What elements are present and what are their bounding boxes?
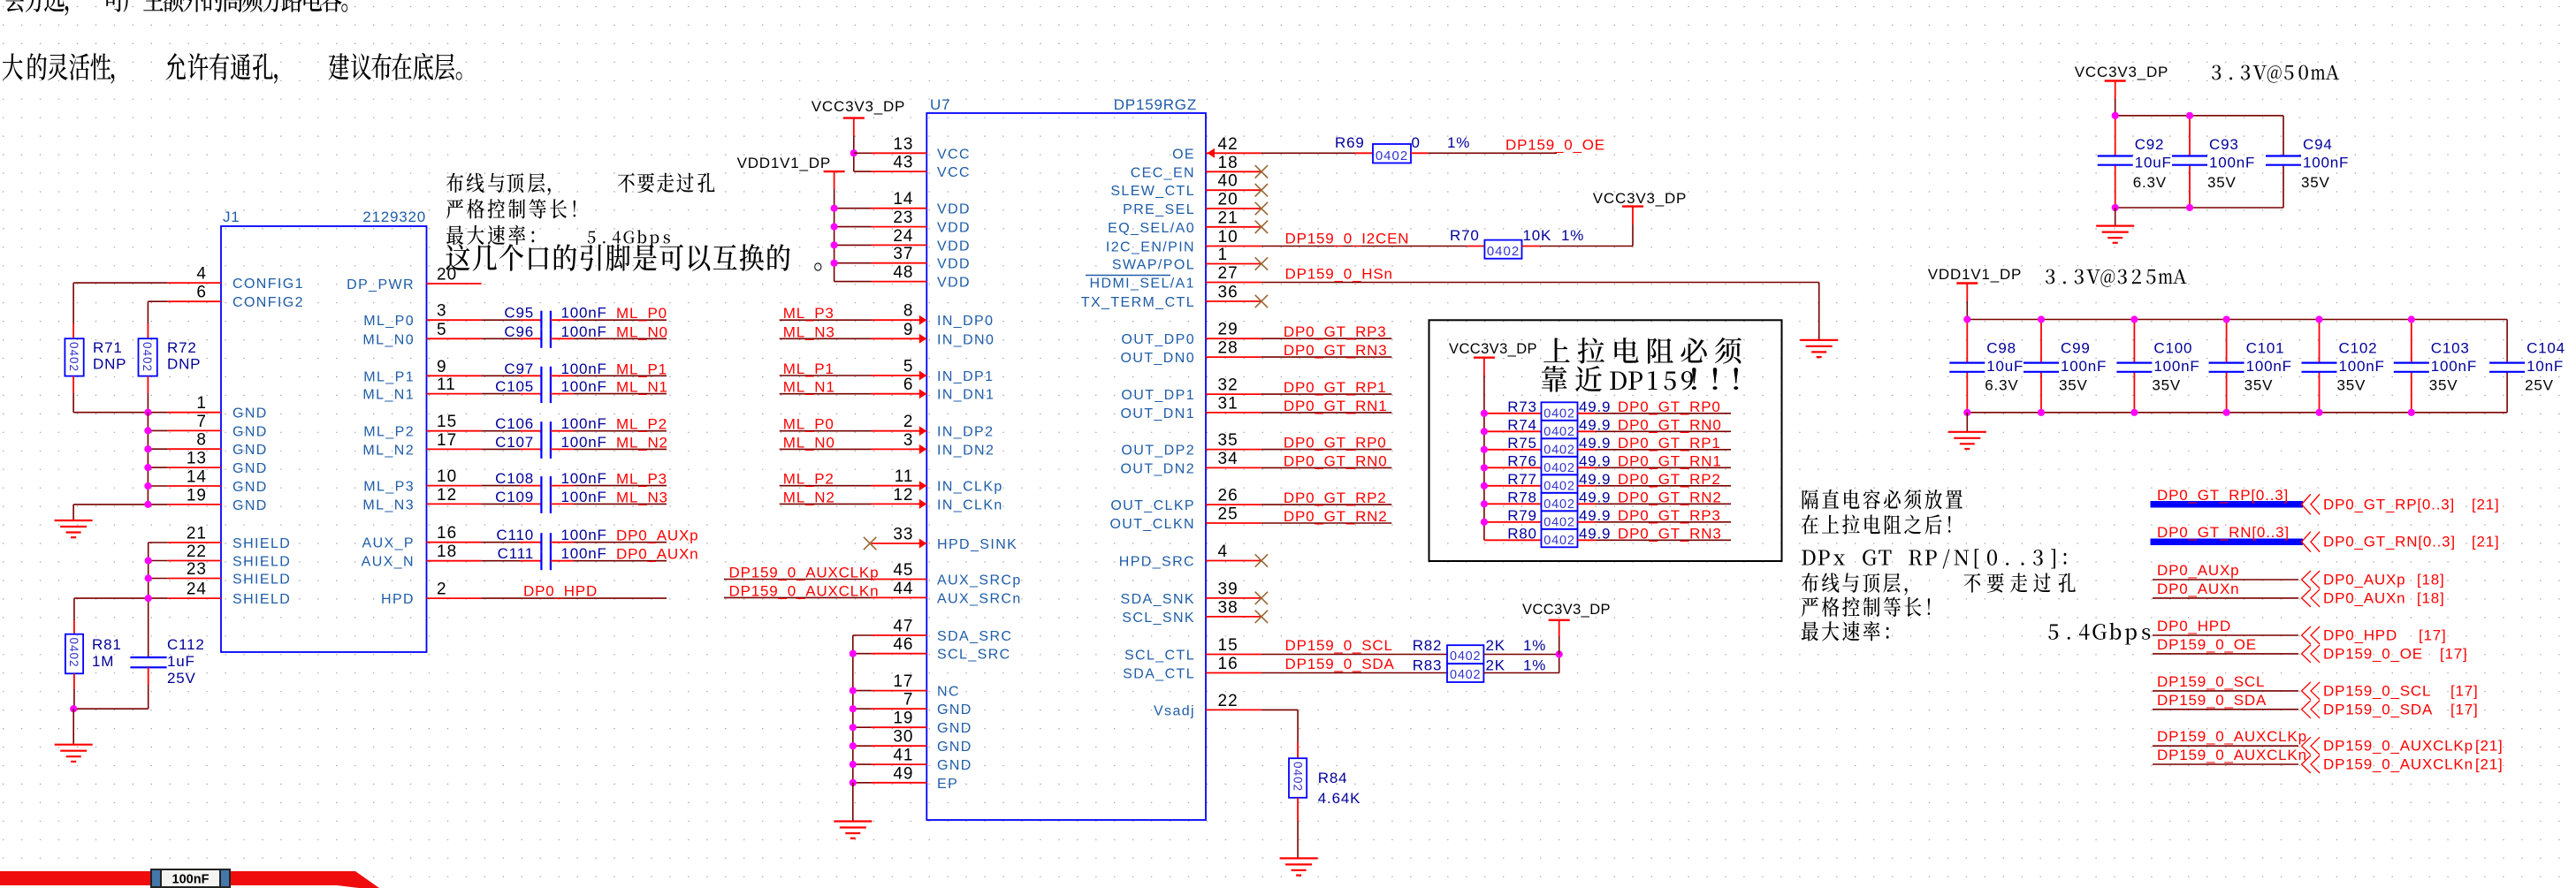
svg-text:C99: C99 (2061, 340, 2091, 357)
svg-text:DP159_0_AUXCLKn: DP159_0_AUXCLKn (2323, 756, 2473, 773)
svg-text:49.9: 49.9 (1579, 525, 1611, 542)
U7 pin 28 OUT_DN0 (1206, 356, 1261, 358)
U7 pin 38 SCL_SNK (1206, 616, 1261, 618)
svg-text:R79: R79 (1507, 507, 1537, 524)
svg-text:100nF: 100nF (561, 305, 607, 322)
svg-text:C105: C105 (495, 378, 534, 395)
svg-text:GND: GND (232, 443, 268, 458)
svg-text:I2C_EN/PIN: I2C_EN/PIN (1106, 240, 1195, 255)
wire DP159_0_AUXCLKp (724, 579, 872, 581)
svg-text:C110: C110 (496, 527, 534, 543)
capacitor C106 100nF net ML_P2 (482, 430, 520, 432)
svg-text:49.9: 49.9 (1579, 452, 1611, 469)
J1 pin 12 ML_N3 (427, 503, 482, 505)
net DP159_0_SCL / resistor R82 2K 1% (1261, 654, 1447, 656)
capacitor C92 10uF 6.3V (2115, 116, 2116, 156)
svg-text:100nF: 100nF (2153, 358, 2199, 375)
svg-text:DP0_GT_RP0: DP0_GT_RP0 (1618, 398, 1721, 415)
svg-text:18: 18 (437, 543, 457, 561)
CJK annotation block right (1802, 490, 1818, 509)
ground C98 bank (1966, 413, 1968, 432)
svg-text:0402: 0402 (141, 342, 154, 372)
J1 pin 22 SHIELD (168, 560, 221, 562)
svg-text:DP0_GT_RP2: DP0_GT_RP2 (1284, 490, 1387, 506)
svg-text:C109: C109 (495, 489, 534, 505)
U7 pin 42 OE (1206, 152, 1261, 154)
svg-text:SHIELD: SHIELD (232, 536, 291, 551)
svg-text:4: 4 (1218, 543, 1229, 561)
U7 pin 3 IN_DN2 (872, 448, 927, 450)
U7 pin 23 VDD (872, 226, 927, 228)
net DP159_0_SDA / resistor R83 2K 1% (1261, 672, 1447, 674)
U7 pin 46 SCL_SRC (872, 653, 927, 655)
svg-text:R77: R77 (1507, 471, 1537, 488)
svg-text:100nF: 100nF (561, 527, 607, 543)
port DP0_AUXn [18] (2153, 597, 2298, 599)
U7 pin 36 TX_TERM_CTL (1206, 300, 1261, 302)
U7 pin 10 I2C_EN/PIN (1206, 246, 1261, 247)
svg-text:0402: 0402 (1543, 461, 1574, 475)
U7 pin 12 IN_CLKn (872, 503, 927, 505)
svg-text:Vsadj: Vsadj (1154, 703, 1195, 718)
U7 pin 40 SLEW_CTL (1206, 189, 1261, 191)
wire DP0_GT_RP2 (1261, 504, 1391, 505)
svg-text:35V: 35V (2059, 377, 2088, 394)
wire CONFIG2 to R72 (148, 300, 167, 302)
U7 pin 33 HPD_SINK (872, 543, 927, 544)
U7 pin 48 VDD (872, 281, 927, 283)
resistor R75 49.9 net DP0_GT_RP1 (1484, 449, 1542, 451)
capacitor C101 100nF 35V (2226, 320, 2228, 363)
svg-text:49: 49 (893, 764, 913, 783)
port DP159_0_AUXCLKn [21] (2153, 763, 2298, 765)
svg-text:DP0_GT_RP1: DP0_GT_RP1 (1618, 435, 1721, 452)
svg-text:21: 21 (1218, 209, 1238, 227)
svg-text:DP0_GT_RN2: DP0_GT_RN2 (1284, 508, 1388, 525)
svg-text:35V: 35V (2337, 377, 2366, 394)
svg-text:100nF: 100nF (2246, 358, 2292, 375)
resistor R79 49.9 net DP0_GT_RP3 (1484, 521, 1542, 523)
svg-text:GND: GND (937, 758, 972, 773)
svg-text:VDD: VDD (937, 257, 971, 272)
wire DP0_GT_RP0 (1261, 449, 1391, 451)
svg-text:C112: C112 (167, 636, 205, 653)
svg-text:7: 7 (196, 413, 207, 431)
svg-text:OUT_DP0: OUT_DP0 (1121, 332, 1195, 347)
J1 pin 19 GND (168, 504, 221, 505)
J1 pin 11 ML_N1 (427, 393, 482, 395)
svg-text:R75: R75 (1507, 435, 1537, 452)
svg-text:DP159_0_AUXCLKp: DP159_0_AUXCLKp (729, 565, 880, 581)
J1 pin 17 ML_N2 (427, 448, 482, 450)
svg-text:EQ_SEL/A0: EQ_SEL/A0 (1108, 221, 1195, 236)
svg-text:DP0_HPD: DP0_HPD (523, 583, 598, 600)
svg-text:ML_N0: ML_N0 (616, 323, 668, 340)
svg-text:11: 11 (437, 376, 456, 394)
J1 pin 16 AUX_P (427, 542, 482, 543)
svg-text:DP0_AUXp: DP0_AUXp (2157, 562, 2239, 579)
svg-text:49.9: 49.9 (1579, 435, 1611, 452)
J1 pin 3 ML_P0 (427, 319, 482, 321)
U7 pin 45 AUX_SRCp (872, 579, 927, 581)
svg-text:VDD1V1_DP: VDD1V1_DP (1928, 266, 2022, 283)
svg-text:DP0_HPD: DP0_HPD (2323, 627, 2397, 644)
svg-text:DP159_0_SDA: DP159_0_SDA (2323, 701, 2433, 717)
J1 pin 15 ML_P2 (427, 430, 482, 432)
svg-text:C94: C94 (2303, 136, 2333, 153)
J1 pin 13 GND (168, 467, 221, 468)
svg-text:GND: GND (232, 461, 268, 476)
svg-text:C100: C100 (2153, 340, 2192, 357)
svg-text:1%: 1% (1523, 637, 1546, 654)
J1 pin 9 ML_P1 (427, 375, 482, 376)
resistor R77 49.9 net DP0_GT_RP2 (1484, 485, 1542, 487)
svg-text:35V: 35V (2244, 377, 2274, 394)
svg-text:GND: GND (937, 702, 972, 717)
svg-text:14: 14 (893, 190, 913, 209)
svg-text:ML_P3: ML_P3 (363, 480, 415, 495)
svg-text:25V: 25V (167, 670, 196, 687)
svg-text:C106: C106 (495, 415, 534, 432)
svg-text:DP159_0_SDA: DP159_0_SDA (1285, 656, 1395, 672)
svg-text:CONFIG2: CONFIG2 (232, 295, 304, 310)
svg-text:10uF: 10uF (1986, 358, 2023, 375)
U7 pin 39 SDA_SNK (1206, 597, 1261, 599)
U7 pin 44 AUX_SRCn (872, 596, 927, 598)
ground C92 bank (2115, 208, 2116, 226)
svg-text:100nF: 100nF (561, 415, 607, 432)
svg-text:40: 40 (1218, 172, 1238, 191)
svg-text:18: 18 (1218, 154, 1238, 172)
svg-text:2K: 2K (1486, 657, 1505, 674)
svg-text:IN_DN2: IN_DN2 (937, 443, 995, 458)
rail top (C98 bank) (1967, 319, 2507, 321)
capacitor C94 100nF 35V (2266, 155, 2301, 156)
svg-text:2: 2 (903, 413, 914, 431)
CJK text top line1 (cut off) (4, 0, 25, 12)
svg-text:VCC3V3_DP: VCC3V3_DP (1449, 341, 1537, 357)
port DP0_GT_RP[0..3] [21] (2151, 501, 2304, 508)
svg-text:IN_CLKn: IN_CLKn (937, 497, 1003, 512)
svg-text:17: 17 (437, 431, 457, 450)
svg-text:12: 12 (893, 486, 913, 505)
svg-text:VCC: VCC (937, 147, 971, 162)
svg-text:DP159_0_SCL: DP159_0_SCL (1285, 637, 1393, 654)
svg-text:[17]: [17] (2450, 701, 2479, 717)
svg-text:[21]: [21] (2472, 534, 2500, 550)
svg-text:VCC: VCC (937, 165, 971, 180)
svg-text:10K: 10K (1523, 227, 1552, 244)
svg-text:DP0_AUXn: DP0_AUXn (2323, 589, 2405, 606)
wire pin19 row to ground (73, 504, 168, 505)
capacitor C93 100nF 35V (2189, 116, 2191, 156)
svg-text:27: 27 (1218, 264, 1238, 283)
U7 pin 1 SWAP/POL (1206, 263, 1261, 265)
U7 left gnd bus (853, 634, 872, 636)
svg-text:1%: 1% (1523, 657, 1546, 674)
svg-text:31: 31 (1218, 394, 1238, 413)
svg-text:ML_N0: ML_N0 (362, 332, 415, 347)
svg-text:35V: 35V (2301, 174, 2330, 191)
svg-text:21: 21 (187, 525, 207, 543)
svg-text:0402: 0402 (1543, 443, 1574, 457)
capacitor C99 100nF 35V (2040, 320, 2042, 363)
svg-text:38: 38 (1218, 598, 1238, 617)
J1 pin 14 GND (168, 485, 221, 487)
wire ML_P3 (780, 319, 872, 321)
svg-text:C98: C98 (1986, 340, 2016, 357)
svg-text:DP0_GT_RN2: DP0_GT_RN2 (1618, 489, 1722, 505)
svg-text:ML_P0: ML_P0 (363, 314, 415, 329)
svg-text:C104: C104 (2526, 340, 2565, 357)
svg-text:0402: 0402 (1543, 534, 1574, 548)
svg-text:C96: C96 (504, 323, 534, 340)
svg-text:ML_N2: ML_N2 (362, 443, 415, 458)
svg-text:DP0_GT_RN1: DP0_GT_RN1 (1284, 398, 1388, 414)
U7 pin 6 IN_DN1 (872, 393, 927, 395)
svg-text:OUT_DN2: OUT_DN2 (1121, 461, 1195, 476)
U7 pin 35 OUT_DP2 (1206, 449, 1261, 451)
wire pin1 row (73, 412, 168, 414)
svg-text:IN_DP2: IN_DP2 (937, 425, 994, 440)
svg-text:GND: GND (232, 480, 268, 495)
U7 pin 17 NC (872, 690, 927, 692)
svg-text:SDA_SRC: SDA_SRC (937, 629, 1012, 644)
U7 pin 43 VCC (872, 171, 927, 172)
capacitor C109 100nF net ML_N3 (482, 503, 520, 505)
svg-text:VCC3V3_DP: VCC3V3_DP (1593, 190, 1687, 207)
net DP159_0_HSn (1261, 282, 1819, 284)
svg-text:VCC3V3_DP: VCC3V3_DP (1522, 602, 1611, 618)
svg-text:ML_P0: ML_P0 (783, 416, 835, 433)
svg-text:100nF: 100nF (561, 323, 607, 340)
net DP0_HPD wire (482, 597, 667, 599)
ground J1 (55, 520, 93, 521)
U7 pin 31 OUT_DN1 (1206, 412, 1261, 414)
svg-text:C101: C101 (2246, 340, 2285, 357)
U7 pin 7 GND (872, 708, 927, 710)
J1 pin 10 ML_P3 (427, 485, 482, 487)
svg-text:ML_P2: ML_P2 (616, 416, 667, 433)
svg-text:SHIELD: SHIELD (232, 592, 291, 607)
U7 pin 11 IN_CLKp (872, 485, 927, 487)
svg-text:0402: 0402 (1291, 762, 1304, 792)
svg-text:0402: 0402 (1487, 244, 1520, 259)
svg-text:DP0_AUXp: DP0_AUXp (2323, 572, 2405, 588)
svg-text:46: 46 (893, 635, 913, 654)
100nF chip image (151, 869, 230, 887)
svg-text:DP0_GT_RP[0..3]: DP0_GT_RP[0..3] (2157, 487, 2289, 504)
svg-text:DP0_GT_RN1: DP0_GT_RN1 (1618, 452, 1722, 469)
U7 pin 8 IN_DP0 (872, 319, 927, 321)
svg-text:19: 19 (893, 710, 913, 728)
svg-text:SDA_SNK: SDA_SNK (1121, 592, 1196, 607)
svg-text:IN_DN0: IN_DN0 (937, 332, 995, 347)
wire pin24 to R81 (74, 597, 168, 599)
svg-text:DP159_0_AUXCLKn: DP159_0_AUXCLKn (2157, 747, 2307, 763)
svg-text:TX_TERM_CTL: TX_TERM_CTL (1081, 295, 1195, 310)
svg-text:45: 45 (893, 561, 913, 580)
svg-text:EP: EP (937, 777, 958, 792)
U7 pin 47 SDA_SRC (872, 634, 927, 636)
svg-text:15: 15 (437, 413, 457, 431)
svg-text:41: 41 (893, 747, 913, 765)
svg-text:8: 8 (196, 431, 207, 450)
svg-text:0402: 0402 (1543, 515, 1574, 529)
wire CONFIG1 to R71 (73, 282, 168, 284)
svg-text:42: 42 (1218, 135, 1238, 154)
U7 pin 27 HDMI_SEL/A1 (1206, 282, 1261, 284)
svg-text:VDD: VDD (937, 221, 971, 236)
svg-text:ML_P1: ML_P1 (363, 369, 415, 384)
no-connect HPD_SINK (864, 537, 876, 550)
svg-text:ML_N3: ML_N3 (616, 489, 668, 505)
svg-text:C93: C93 (2209, 136, 2239, 153)
J1 pin 4 CONFIG1 (168, 282, 221, 284)
svg-text:U7: U7 (930, 96, 950, 113)
svg-text:DP0_GT_RP0: DP0_GT_RP0 (1284, 435, 1387, 452)
annotation box pullups (1429, 320, 1782, 561)
svg-text:SDA_CTL: SDA_CTL (1123, 667, 1195, 682)
U7 pin 9 IN_DN0 (872, 338, 927, 339)
svg-text:SCL_SRC: SCL_SRC (937, 648, 1011, 663)
svg-text:0402: 0402 (1450, 649, 1481, 664)
U7 pin 22 Vsadj (1206, 709, 1261, 710)
wire ML_N1 (780, 393, 872, 395)
rail bottom (C98 bank) (1967, 412, 2507, 414)
svg-text:SLEW_CTL: SLEW_CTL (1110, 184, 1195, 199)
svg-text:DP159_0_AUXCLKp: DP159_0_AUXCLKp (2323, 738, 2473, 755)
U7 pin 34 OUT_DN2 (1206, 467, 1261, 468)
resistor R71 DNP (72, 323, 74, 338)
U7 pin 16 SDA_CTL (1206, 672, 1261, 674)
IC U7 DP159RGZ (926, 113, 1206, 820)
svg-text:5: 5 (437, 321, 447, 339)
svg-text:ML_P2: ML_P2 (783, 471, 835, 488)
J1 pin 23 SHIELD (168, 578, 221, 580)
svg-text:49.9: 49.9 (1579, 398, 1611, 415)
svg-text:ML_N3: ML_N3 (362, 497, 415, 512)
svg-text:ML_N1: ML_N1 (783, 379, 835, 396)
svg-text:0402: 0402 (1376, 148, 1408, 163)
svg-text:49.9: 49.9 (1579, 471, 1611, 488)
ground U7 EP (834, 820, 872, 822)
capacitor C111 100nF net DP0_AUXn (482, 560, 520, 562)
svg-text:R83: R83 (1413, 657, 1443, 674)
svg-text:DP0_GT_RN0: DP0_GT_RN0 (1618, 416, 1722, 433)
svg-text:GND: GND (937, 740, 972, 755)
svg-text:49.9: 49.9 (1579, 507, 1611, 524)
svg-text:0402: 0402 (67, 342, 80, 372)
resistor R84 4.64K (1297, 742, 1299, 758)
svg-text:12: 12 (437, 486, 457, 505)
svg-text:[21]: [21] (2475, 738, 2504, 755)
svg-text:0402: 0402 (67, 638, 80, 668)
svg-text:ML_P1: ML_P1 (783, 361, 835, 377)
svg-text:44: 44 (893, 580, 913, 598)
svg-text:AUX_SRCp: AUX_SRCp (937, 573, 1022, 588)
svg-text:2129320: 2129320 (362, 209, 426, 225)
port DP159_0_OE [17] (2153, 653, 2298, 655)
resistor R78 49.9 net DP0_GT_RN2 (1484, 503, 1542, 505)
svg-text:DP0_GT_RP1: DP0_GT_RP1 (1284, 379, 1387, 396)
capacitor C107 100nF net ML_N2 (482, 448, 520, 450)
svg-text:ML_N2: ML_N2 (616, 434, 668, 451)
svg-text:22: 22 (1218, 692, 1238, 710)
svg-text:DP0_AUXn: DP0_AUXn (2157, 581, 2239, 597)
svg-text:34: 34 (1218, 450, 1238, 468)
svg-text:ML_P1: ML_P1 (616, 361, 667, 377)
ground R81/C112 (55, 744, 93, 746)
svg-text:[18]: [18] (2417, 589, 2445, 606)
svg-text:[17]: [17] (2419, 627, 2447, 644)
wire ML_P2 (780, 485, 872, 487)
wire ML_P0 (780, 430, 872, 432)
svg-text:DP_PWR: DP_PWR (347, 277, 415, 292)
wire ML_N3 (780, 338, 872, 339)
svg-text:DP0_GT_RP[0..3]: DP0_GT_RP[0..3] (2323, 496, 2455, 512)
svg-text:C108: C108 (495, 470, 534, 487)
SHIELD bus (149, 542, 168, 543)
svg-text:R82: R82 (1413, 637, 1443, 654)
svg-text:19: 19 (187, 486, 207, 505)
wire DP0_GT_RN0 (1261, 467, 1391, 468)
svg-text:35: 35 (1218, 431, 1238, 450)
svg-text:ML_P0: ML_P0 (616, 305, 667, 322)
svg-text:3: 3 (437, 302, 447, 321)
capacitor C100 100nF 35V (2133, 320, 2135, 363)
port DP0_AUXp [18] (2153, 579, 2298, 581)
svg-text:DP0_HPD: DP0_HPD (2157, 618, 2231, 634)
svg-text:13: 13 (893, 135, 913, 154)
svg-text:C95: C95 (504, 305, 534, 322)
svg-text:25: 25 (1218, 505, 1238, 524)
svg-text:9: 9 (437, 358, 447, 376)
svg-text:DP159_0_OE: DP159_0_OE (2323, 645, 2423, 662)
svg-text:100nF: 100nF (2209, 155, 2255, 171)
svg-text:32: 32 (1218, 376, 1238, 395)
svg-text:35V: 35V (2429, 377, 2458, 394)
svg-text:DP159_0_OE: DP159_0_OE (2157, 636, 2257, 653)
wire DP0_GT_RP3 (1261, 338, 1391, 339)
wire DP159_0_AUXCLKn (724, 596, 872, 598)
resistor R76 49.9 net DP0_GT_RN1 (1484, 467, 1542, 468)
capacitor C112 1uF 25V (148, 657, 149, 659)
svg-text:DP159_0_AUXCLKn: DP159_0_AUXCLKn (729, 582, 880, 599)
connector J1 (221, 226, 427, 652)
svg-text:ML_N2: ML_N2 (783, 489, 835, 505)
port DP159_0_AUXCLKp [21] (2153, 745, 2298, 747)
svg-text:16: 16 (1218, 655, 1238, 673)
svg-text:SWAP/POL: SWAP/POL (1112, 258, 1195, 273)
svg-text:GND: GND (232, 498, 268, 513)
svg-text:VDD: VDD (937, 276, 971, 291)
svg-text:ML_P3: ML_P3 (616, 471, 667, 488)
U7 pin 25 OUT_CLKN (1206, 522, 1261, 524)
svg-text:6: 6 (903, 376, 914, 394)
svg-text:35V: 35V (2152, 377, 2181, 394)
svg-text:14: 14 (187, 468, 207, 487)
U7 pin 26 OUT_CLKP (1206, 504, 1261, 505)
U7 pin 37 VDD (872, 262, 927, 264)
svg-text:3: 3 (903, 431, 914, 450)
U7 pin 2 IN_DP2 (872, 430, 927, 432)
CJK annotation block near U7 (446, 173, 463, 193)
J1 pin 2 HPD (427, 597, 482, 599)
svg-text:VDD1V1_DP: VDD1V1_DP (737, 155, 831, 171)
svg-text:GND: GND (232, 406, 268, 421)
svg-text:OUT_CLKP: OUT_CLKP (1110, 498, 1195, 513)
